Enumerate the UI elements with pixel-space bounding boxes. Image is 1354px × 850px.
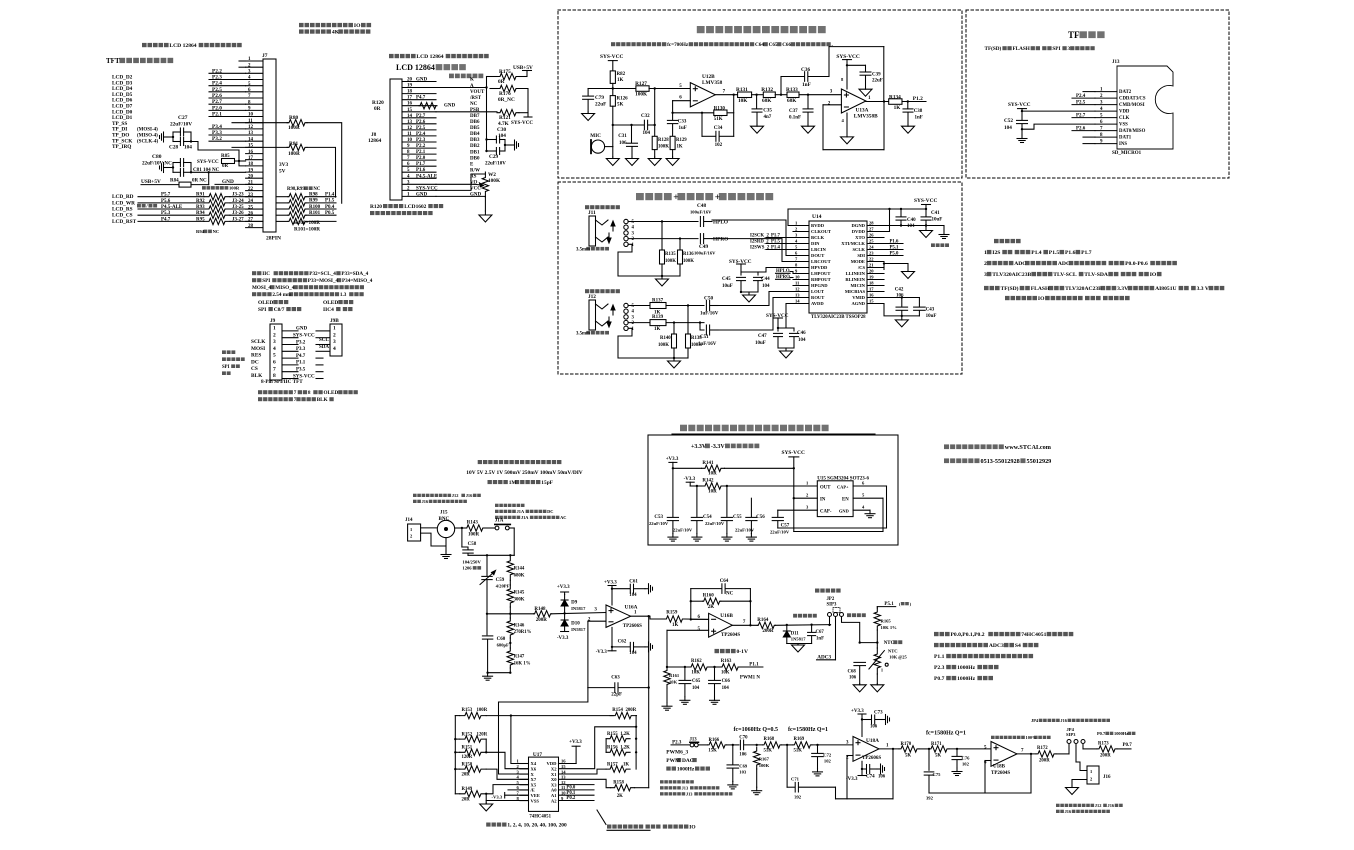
resistor R98 right P1.4 [276,196,288,198]
svg-text:J14: J14 [405,518,413,523]
note OLED bottom [258,390,262,394]
ground C41 triangle [925,226,927,231]
svg-text:10R: 10R [708,489,717,494]
svg-text:fc=700Hz: fc=700Hz [667,42,689,48]
U15 EN loop [882,498,884,531]
U18A output [879,748,899,750]
svg-text:10uF: 10uF [755,341,766,346]
svg-text:5: 5 [698,627,701,632]
resistor R126 5K [612,89,614,96]
svg-text:14: 14 [795,299,800,304]
svg-text:J13: J13 [686,792,693,797]
svg-text:P0.2: P0.2 [566,796,576,801]
U17 pin rows [520,763,529,765]
C27/C28 rails [173,131,180,133]
ground C65 [684,697,686,701]
svg-text:17: 17 [248,156,254,161]
svg-text:1000Hz: 1000Hz [957,676,976,682]
node3 C71 branch [786,744,788,746]
mic wires [605,146,613,148]
svg-text:R84: R84 [170,179,179,184]
svg-text:R167: R167 [759,757,770,762]
svg-text:0-1V: 0-1V [737,649,749,655]
svg-text:LCD_RST: LCD_RST [112,219,137,225]
svg-text:+V3.3: +V3.3 [851,709,864,714]
svg-text:-V3.3: -V3.3 [492,794,503,799]
svg-text:C80: C80 [152,154,162,160]
svg-text:11: 11 [795,281,800,286]
svg-text:C37: C37 [789,109,798,114]
svg-text:DC: DC [251,359,259,365]
svg-text:P1.1: P1.1 [296,361,306,366]
svg-text:VDD: VDD [547,761,558,766]
capacitor C34 102 [701,113,703,137]
svg-text:P4.7: P4.7 [296,354,306,359]
svg-text:24: 24 [869,245,874,250]
capacitor C41 10uF [925,208,927,210]
svg-text:X6: X6 [531,767,537,772]
svg-text:0513-55012928: 0513-55012928 [981,458,1020,465]
svg-text:IO: IO [689,825,695,831]
feedback jog to loop [835,787,837,799]
ground C39 [865,88,867,89]
svg-text:R147: R147 [514,655,525,660]
resistor R147 16K 1% [507,648,513,668]
resistor R137 1K [650,303,666,309]
DGND rail [884,225,944,227]
U16B plus input wire [667,629,709,631]
svg-text:8-Pin SPI/IIC TFT: 8-Pin SPI/IIC TFT [261,379,303,385]
ground for C27/C28 [167,136,173,138]
resistor R141 10R [673,467,702,469]
svg-text:28PIN: 28PIN [266,236,281,242]
label 垂直基线 0-1V [715,649,720,653]
svg-text:TLV-SCL: TLV-SCL [1053,272,1077,278]
svg-text:P34=MISO_4: P34=MISO_4 [342,278,373,284]
svg-text:BCLK: BCLK [811,235,824,240]
svg-text:fc=1060Hz Q=0.5: fc=1060Hz Q=0.5 [734,727,779,733]
svg-text:100K: 100K [683,259,694,264]
svg-text:P0.7: P0.7 [1123,743,1133,748]
JP2 middle stem to ADC3 [835,617,837,660]
svg-text:C55: C55 [733,515,742,520]
svg-text:P0.0-P0.6: P0.0-P0.6 [1125,261,1148,267]
label 下列电阻值为100R [202,186,206,190]
svg-text:/E: /E [530,788,535,793]
svg-text:+V3.3: +V3.3 [666,457,679,462]
note 接口要求 block [994,239,999,243]
capacitor C35 4n7 [755,94,757,96]
svg-text:P2.3: P2.3 [934,665,945,671]
svg-text:C29: C29 [489,154,498,160]
svg-text:MODE: MODE [851,259,865,264]
ground C35 [756,125,758,127]
svg-text:SCL: SCL [319,338,329,343]
resistor R167 100K shunt [756,744,758,746]
svg-text:3.3 V: 3.3 V [1197,286,1209,292]
svg-text:DB4: DB4 [470,132,480,137]
svg-text:X4: X4 [531,761,537,766]
svg-text:104: 104 [184,145,192,151]
capacitor C63 22pF [614,683,616,693]
svg-text:R127: R127 [635,81,647,87]
svg-text:22uF/10V: 22uF/10V [770,530,790,535]
bias row to C32 [613,124,644,126]
svg-text:51K: 51K [764,749,773,754]
svg-text:680pF: 680pF [497,643,509,648]
svg-text:TLV320AIC23B: TLV320AIC23B [992,272,1031,278]
svg-text:5: 5 [632,304,635,309]
svg-text:10uF: 10uF [932,218,943,223]
diode D10 IN5817 [564,613,566,620]
svg-text:P0.7: P0.7 [934,676,945,682]
svg-text:19: 19 [248,168,254,173]
minus net into pin3 [499,688,588,774]
U14 left lower pin wires [718,292,793,306]
svg-text:J15: J15 [440,511,448,516]
svg-text:1, 2, 4, 10, 20, 40, 100, 200: 1, 2, 4, 10, 20, 40, 100, 200 [507,823,567,829]
svg-text:3: 3 [594,608,597,613]
svg-text:I2S: I2S [992,250,1000,256]
svg-text:TLV320AC23B: TLV320AC23B [1065,286,1102,292]
svg-text:SIP3: SIP3 [827,603,837,608]
resistor R173 200R [1083,748,1097,750]
svg-text:1K: 1K [617,78,624,83]
svg-text:VSS: VSS [531,798,540,803]
svg-text:NC: NC [470,102,478,107]
svg-text:R126: R126 [617,97,629,102]
svg-text:51K: 51K [794,749,803,754]
wire J13 to R166 [699,744,708,746]
resistor R99 right P1.5 [276,202,288,204]
capacitor C66 104 [714,667,716,680]
svg-text:C35: C35 [763,109,772,114]
svg-text:10K @25: 10K @25 [889,655,907,660]
svg-text:7: 7 [273,366,276,372]
svg-text:4: 4 [632,310,635,315]
svg-text:MOSI_4: MOSI_4 [252,285,271,291]
svg-text:SPI: SPI [262,278,270,284]
svg-text:200R: 200R [762,629,774,634]
svg-text:0R NC: 0R NC [192,179,207,184]
svg-text:C46: C46 [797,331,806,336]
J12 wires [628,305,650,307]
svg-text:J16: J16 [1060,718,1067,723]
svg-text:TFT: TFT [106,57,120,65]
svg-text:IIC4: IIC4 [323,307,334,313]
svg-text:16K 1%: 16K 1% [514,661,531,666]
svg-text:(: ( [899,601,901,606]
capacitor C55 22uF/10V [726,486,728,517]
svg-text:5K: 5K [617,103,624,108]
resistor R142 10R [690,485,701,487]
svg-text:fc=1580Hz Q=1: fc=1580Hz Q=1 [926,731,966,737]
svg-text:J7: J7 [262,53,268,59]
J14 wires [421,527,438,529]
svg-text:SIP3: SIP3 [1066,732,1076,737]
label 数据/命令 [137,204,141,208]
svg-text:4: 4 [333,346,336,352]
R149 to pin5 [485,793,487,795]
svg-text:12: 12 [795,287,800,292]
svg-text:10R: 10R [708,472,717,477]
ground D11 C67 [797,644,799,646]
capacitor C75 392 [928,748,930,750]
svg-text:16: 16 [869,293,874,298]
svg-text:16: 16 [561,759,566,764]
svg-text:C39: C39 [872,73,881,78]
svg-text:1000Hz: 1000Hz [1114,731,1128,736]
R150 to pin4 [486,769,528,779]
resistor R134 1K [889,99,902,105]
capacitor C29 22uF/10V [495,148,497,155]
svg-text:C33: C33 [678,120,687,125]
svg-text:1: 1 [517,759,520,764]
svg-text:R131: R131 [736,87,748,93]
svg-text:3: 3 [795,233,798,238]
svg-text:20: 20 [248,174,254,179]
capacitor C70 106 series [732,744,734,746]
svg-text:P2.4: P2.4 [416,132,426,137]
svg-text:3: 3 [333,339,336,345]
svg-text:22pF: 22pF [611,693,622,698]
svg-text:15pF: 15pF [541,480,553,486]
svg-text:-V3.3: -V3.3 [846,777,858,782]
ground below W2 [484,197,486,211]
dashed box line out [558,182,962,374]
svg-text:P0.0: P0.0 [566,786,576,791]
svg-text:2: 2 [828,102,831,107]
svg-text:J12: J12 [588,294,596,300]
svg-text:22uF/10V NC: 22uF/10V NC [142,161,172,167]
svg-text:FLASH: FLASH [1031,286,1050,292]
svg-text:+V3.3: +V3.3 [604,581,617,586]
svg-text:106: 106 [870,725,878,730]
svg-text:22: 22 [248,187,254,192]
svg-text:6: 6 [795,251,798,256]
title mic amp [697,26,705,33]
svg-text:22uF/10V: 22uF/10V [485,162,506,167]
ground C46/C47 [778,347,794,349]
note AC DC switch [495,504,499,507]
svg-text:51K: 51K [714,117,723,122]
svg-text:7: 7 [1021,749,1024,754]
svg-text:10: 10 [795,275,800,280]
C29/C30 rails [487,139,497,141]
svg-text:IN5817: IN5817 [571,627,586,632]
JP2 right stem [842,617,860,643]
capacitor C72 102 shunt [816,744,818,746]
svg-text:/CS: /CS [857,265,866,270]
resistor R136 100K [679,237,681,239]
svg-text:3.3V: 3.3V [1117,286,1128,292]
U18A minus to loop [847,755,853,757]
svg-text:TF: TF [1068,30,1080,40]
svg-text:0R: 0R [374,106,381,112]
svg-text:P33=MOSI_4: P33=MOSI_4 [308,278,339,284]
svg-text:CDDAT3/CS: CDDAT3/CS [1119,97,1146,102]
feedback row to R130 [673,112,714,114]
ground C76 [956,768,958,772]
svg-text:X0: X0 [551,777,557,782]
svg-text:100K: 100K [691,343,702,348]
svg-text:P2.6: P2.6 [416,120,426,125]
svg-text:NTC: NTC [884,641,895,646]
baseline node row [667,666,690,668]
label 增益控制 [607,825,611,829]
node C32 out [648,124,655,126]
svg-text:6: 6 [679,96,682,101]
svg-text:TP2604S: TP2604S [991,771,1010,776]
svg-text:JP2: JP2 [827,597,835,602]
svg-text:fc=1580Hz Q=1: fc=1580Hz Q=1 [788,727,828,733]
svg-text:P1.5: P1.5 [1049,250,1060,256]
dashed box mic amp [558,10,962,178]
feedback right vertical [733,95,735,137]
svg-text:104: 104 [722,686,730,691]
svg-text:20R: 20R [462,798,471,803]
svg-text:SYS-VCC: SYS-VCC [197,160,219,165]
svg-text:P1.7: P1.7 [1081,250,1092,256]
svg-text:J1A: J1A [521,515,529,520]
wire R85 to vertical node [235,160,246,162]
svg-text:100K: 100K [759,763,770,768]
svg-text:1K: 1K [623,763,629,768]
svg-text:SCLK: SCLK [852,247,865,252]
svg-text:MISO_4: MISO_4 [275,285,294,291]
svg-text:5V: 5V [279,169,286,175]
capacitor C64 NC [691,588,722,590]
capacitor C32 104 [643,120,645,130]
svg-text:AI8051U: AI8051U [1155,286,1176,292]
svg-text:P2.3: P2.3 [416,138,426,143]
svg-text:13: 13 [248,131,254,136]
svg-text:TLV-SDA: TLV-SDA [1084,272,1108,278]
svg-text:10V 5V 2.5V 1V 500mV 250mV 100: 10V 5V 2.5V 1V 500mV 250mV 100mV 50mV/DI… [466,470,583,476]
R152/R151 node to pin2 [485,739,487,752]
TF stub wires 1 8 9 [1083,91,1095,93]
svg-text:200R: 200R [536,618,548,623]
svg-text:10K: 10K [691,671,700,676]
label 数控增益 [486,823,490,827]
svg-text:10K: 10K [738,98,748,104]
resistor R129 1K [670,136,675,149]
svg-text:1: 1 [868,96,871,101]
svg-text:SYS-VCC: SYS-VCC [600,54,623,60]
svg-text:R144: R144 [514,567,525,572]
svg-text:R129: R129 [676,138,687,143]
ground NTC [876,674,878,684]
svg-text:2K: 2K [617,794,623,799]
svg-text:P33=SDA_4: P33=SDA_4 [341,271,368,277]
svg-text:U18A: U18A [866,738,879,744]
note pull-up text [299,23,304,27]
svg-text:A: A [470,84,474,89]
svg-text:1uF/16V: 1uF/16V [700,312,719,317]
svg-text:C53: C53 [654,515,663,520]
wire J7 pin11 to R80 [232,122,288,124]
ground R167 [756,787,758,791]
svg-text:1: 1 [273,326,276,332]
svg-text:GND: GND [416,78,428,83]
svg-text:LCD 12864: LCD 12864 [169,43,196,49]
svg-text:100R: 100R [288,125,300,131]
svg-text:LRCOUT: LRCOUT [811,259,831,264]
capacitor C81 104 NC [179,168,181,176]
svg-text:680K: 680K [514,573,525,578]
svg-text:X3: X3 [551,782,557,787]
svg-text:(SCLK-4): (SCLK-4) [137,139,158,144]
svg-text:ADC: ADC [1058,261,1070,267]
svg-text:100R: 100R [477,708,488,713]
note OLED config 4 lines [252,271,256,275]
note probe attenuator 3 lines [478,460,482,464]
svg-text:C34: C34 [714,126,723,131]
capacitor C43 10uF [918,298,920,307]
svg-text:4: 4 [632,226,635,231]
op-amp U16A TP2606S [606,605,631,627]
svg-text:4: 4 [795,239,798,244]
svg-text:74HC4051: 74HC4051 [1021,632,1046,638]
svg-text:INS: INS [1119,142,1127,147]
resistor R131 10K [738,92,752,98]
J1A vertical to divider [513,528,515,555]
svg-text:18: 18 [248,162,254,167]
connector J8 [390,79,402,200]
svg-text:20: 20 [407,78,413,83]
svg-text:TP2606S: TP2606S [862,756,881,761]
svg-text:100K: 100K [635,92,648,98]
svg-text:3: 3 [273,339,276,345]
svg-text:AC: AC [560,515,566,520]
capacitor C46 104 [778,327,794,329]
svg-text:P1.6: P1.6 [1065,250,1076,256]
R153 net into pin1 [511,716,520,764]
svg-text:7: 7 [294,390,297,396]
svg-text:1000Hz: 1000Hz [957,665,976,671]
svg-text:SYS-VCC: SYS-VCC [914,198,937,204]
svg-text:1K: 1K [654,327,661,332]
svg-text:R169: R169 [794,737,805,742]
note sine switch 3 lines [660,780,664,783]
svg-text:LCD_RD: LCD_RD [112,194,134,200]
capacitor C28 104 [179,138,181,146]
svg-text:SCLK: SCLK [251,339,266,345]
capacitor C49 100uF/16V [680,238,698,240]
svg-text:3: 3 [806,504,809,509]
svg-text:1: 1 [886,744,889,749]
svg-text:5: 5 [795,245,798,250]
svg-text:/RST: /RST [469,96,482,101]
svg-text:16: 16 [248,150,254,155]
ground C79 [587,112,589,114]
capacitor C39 22uF [847,64,866,66]
J7 pin leads [246,60,263,62]
svg-text:1: 1 [806,480,809,485]
svg-text:J13: J13 [1112,60,1120,65]
svg-text:R153: R153 [462,708,473,713]
ground C72 [817,768,819,772]
svg-text:GND: GND [444,104,456,109]
svg-text:P2.7: P2.7 [416,114,426,119]
svg-text:C76: C76 [962,756,971,761]
svg-text:-V3.3: -V3.3 [596,650,608,655]
svg-text:7: 7 [723,89,726,94]
ground C68 [859,684,861,685]
svg-text:+V3.3: +V3.3 [569,740,582,745]
svg-text:16: 16 [407,102,413,107]
capacitor C57 22uF/10V [777,510,779,517]
